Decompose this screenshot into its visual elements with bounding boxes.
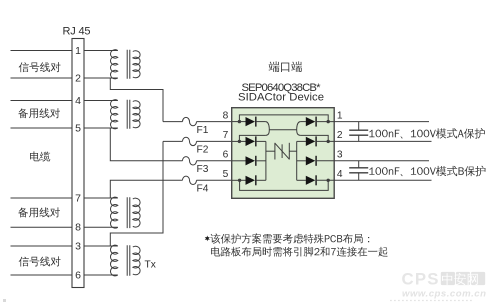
wire pin4 out [334, 179, 431, 181]
transformer core [127, 100, 130, 129]
diode D6 [246, 156, 256, 165]
junction pin7 elbow [238, 140, 241, 143]
svg-text:7: 7 [75, 192, 81, 204]
diode D7 [246, 137, 256, 146]
connector RJ45 [72, 39, 84, 288]
svg-text:8: 8 [75, 222, 81, 234]
wire T2 branch to F3 [110, 128, 182, 161]
label spare pair 2 [18, 207, 60, 217]
wire D1 to pin exit [316, 121, 334, 123]
note star bullet [205, 236, 210, 242]
junction pin4 rail [327, 179, 330, 182]
wire pin7 to T3 [84, 197, 118, 199]
diode D5 [246, 176, 256, 185]
wire bottom rail pin5-pin4 [240, 180, 329, 190]
crossover bracket left [266, 122, 270, 136]
SIDACtor device U1 body [232, 108, 335, 199]
watermark dotted underline [390, 300, 473, 302]
svg-text:5: 5 [75, 122, 81, 134]
wire pin2 out [334, 140, 431, 142]
SIDACtor bidirectional thyristor symbol [266, 150, 275, 152]
svg-text:8: 8 [223, 110, 229, 121]
label cable [30, 151, 50, 161]
svg-text:RJ 45: RJ 45 [63, 26, 91, 38]
fuse F1 [163, 121, 183, 123]
svg-text:1: 1 [337, 110, 343, 121]
wire pin row D6 entry [232, 160, 246, 162]
wire elbow pin2 crossover [300, 135, 328, 141]
capacitor C1 100nF between rows 1-2 [358, 122, 360, 131]
svg-text:F1: F1 [197, 125, 209, 136]
svg-text:SIDACtor Device: SIDACtor Device [238, 92, 324, 104]
label C1 100nF 100V mode A [369, 128, 484, 139]
svg-text:4: 4 [75, 95, 81, 107]
wire top rail pin8-pin1 [239, 115, 328, 122]
svg-text:F2: F2 [197, 145, 209, 156]
label signal pair 2 [19, 256, 61, 266]
svg-text:7: 7 [223, 130, 229, 141]
wire diode7 cathode to bus [256, 140, 266, 142]
wire cross link [269, 129, 296, 131]
diode D1 [306, 117, 316, 126]
note line 2 [211, 247, 388, 257]
wire T3 branch to F4 [110, 180, 182, 198]
svg-text:CPS: CPS [402, 270, 440, 289]
wire T4 branch to F2 [110, 141, 163, 246]
note line 1 [210, 233, 369, 243]
wire right bus [296, 141, 298, 180]
wire pin3 to T4 [84, 245, 118, 247]
svg-text:3: 3 [337, 150, 343, 161]
wire pin row D8 entry [232, 121, 246, 123]
wire elbow pin7 crossover [239, 135, 265, 141]
wire pin6 to T4 [84, 274, 118, 276]
junction pin2 elbow [327, 140, 330, 143]
wire pin3 out [334, 160, 429, 162]
wire bus to diode3 anode [297, 160, 306, 162]
svg-text:6: 6 [223, 150, 229, 161]
transformer core [127, 50, 130, 79]
junction pin5 rail [238, 179, 241, 182]
svg-text:4: 4 [337, 169, 343, 180]
fuse F4 [183, 176, 197, 184]
wire diode6 cathode to bus [256, 160, 266, 162]
transformer primary winding [110, 100, 117, 129]
wire D3 to pin exit [316, 160, 334, 162]
fuse F2 [163, 140, 183, 142]
svg-text:F4: F4 [197, 184, 209, 195]
junction pin8 rail [238, 120, 241, 123]
label port side [269, 61, 302, 72]
svg-text:1: 1 [75, 45, 81, 57]
wire bus to diode4 anode [297, 179, 306, 181]
transformer secondary winding [133, 246, 140, 275]
transformer core [127, 245, 130, 276]
wire T1 branch to F1 [110, 78, 163, 122]
wire D2 to pin exit [316, 140, 334, 142]
transformer secondary winding [133, 198, 140, 227]
wire D4 to pin exit [316, 179, 334, 181]
watermark blocks 中安网 [441, 272, 455, 285]
fuse F3 [183, 157, 197, 165]
transformer secondary winding [133, 101, 140, 128]
wire pin row D5 entry [232, 179, 246, 181]
label spare pair 1 [18, 108, 60, 118]
svg-text:2: 2 [75, 72, 81, 84]
junction pin1 rail [327, 120, 330, 123]
diode D4 [306, 176, 316, 185]
diode D2 [306, 137, 316, 146]
diode D3 [306, 156, 316, 165]
wire bracket to diode1 anode [300, 121, 306, 123]
wire pin5 to T2 [84, 127, 118, 129]
wire pin row D7 entry [232, 140, 246, 142]
wire pin2 to T1 [84, 77, 118, 79]
wire rows into RJ45 [11, 50, 73, 52]
svg-text:5: 5 [223, 169, 229, 180]
label signal pair 1 [19, 62, 61, 72]
transformer primary winding [110, 245, 117, 276]
wire bus to diode2 anode [297, 140, 306, 142]
svg-text:3: 3 [75, 240, 81, 252]
corner speck [3, 299, 6, 302]
transformer primary winding [110, 50, 117, 79]
wire pin1 to T1 [84, 50, 118, 52]
label C2 100nF 100V mode B [369, 166, 485, 177]
transformer primary winding [110, 197, 117, 228]
wire pin4 to T2 [84, 100, 118, 102]
capacitor C2 100nF between rows 3-4 [358, 161, 360, 168]
transformer secondary winding [133, 51, 140, 78]
crossover bracket right [297, 122, 301, 136]
svg-text:www.cps.com.cn: www.cps.com.cn [402, 289, 486, 300]
wire diode8 cathode [256, 121, 266, 123]
wire left bus [265, 141, 267, 180]
svg-text:2: 2 [337, 130, 343, 141]
wire pin1 out [334, 121, 429, 123]
svg-text:Tx: Tx [145, 260, 156, 271]
transformer core [127, 197, 130, 228]
wire pin8 to T3 [84, 226, 118, 228]
svg-text:F3: F3 [197, 164, 209, 175]
svg-text:6: 6 [75, 269, 81, 281]
diode D8 [246, 117, 256, 126]
wire diode5 cathode to bus [256, 179, 266, 181]
